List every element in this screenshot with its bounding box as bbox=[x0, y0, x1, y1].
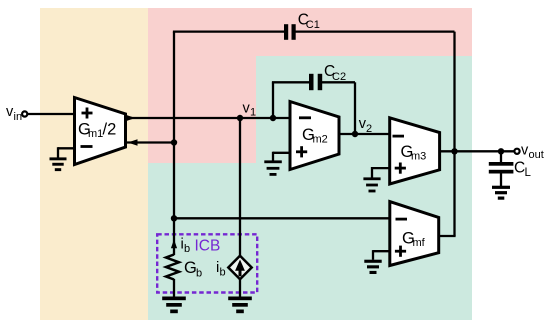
svg-text:b: b bbox=[196, 268, 202, 280]
svg-text:out: out bbox=[529, 149, 544, 161]
wire CC2 right leg down to v2 bbox=[354, 82, 356, 134]
current source ib bbox=[228, 256, 251, 280]
terminal vin bbox=[22, 111, 27, 116]
svg-text:m2: m2 bbox=[313, 134, 328, 146]
plus sign amp1 bbox=[82, 108, 93, 119]
capacitor CC1 plates bbox=[284, 24, 288, 40]
svg-text:/2: /2 bbox=[103, 121, 117, 139]
plus sign amp2 bbox=[296, 146, 307, 157]
node v1 bbox=[237, 115, 243, 121]
svg-text:ICB: ICB bbox=[195, 238, 221, 255]
wire vin to Gm1/2 bbox=[27, 113, 75, 115]
minus sign Gmf bbox=[396, 218, 408, 221]
node amp1 feedback junction bbox=[171, 139, 177, 145]
wire CC2 horizontal left segment bbox=[272, 81, 309, 83]
ground Gmf bbox=[373, 250, 390, 252]
svg-text:b: b bbox=[184, 243, 190, 255]
op-amp U4 Gmf bbox=[390, 202, 439, 266]
background pink region bbox=[148, 8, 472, 163]
resistor Gb bbox=[166, 255, 179, 280]
arrow ib on wire A bbox=[171, 239, 177, 248]
wire right vertical x=454.5 (CC1 right leg down to Gmf output) bbox=[453, 32, 455, 236]
ground current source bbox=[228, 297, 252, 314]
plus sign Gmf bbox=[395, 246, 406, 257]
wire Gm1 feedback input bbox=[126, 141, 175, 143]
minus sign amp3 bbox=[393, 135, 405, 138]
node ICB junction on wire A bbox=[171, 215, 177, 221]
capacitor CC2 plates bbox=[309, 74, 314, 90]
terminal vout bbox=[514, 149, 519, 154]
wire CC1 top horizontal right segment bbox=[296, 30, 455, 32]
dashed box ICB bbox=[157, 234, 257, 292]
background teal region lower bbox=[148, 163, 472, 320]
background teal region upper bbox=[256, 56, 472, 320]
wire v2 rail Gm2 output to Gm3 input bbox=[339, 133, 390, 135]
node CC2 branch junction bbox=[270, 115, 276, 121]
wire CC2 horizontal right segment bbox=[322, 81, 355, 83]
arrow Gm1 output bbox=[126, 115, 136, 121]
svg-text:b: b bbox=[220, 267, 226, 279]
svg-text:m1: m1 bbox=[88, 128, 103, 140]
arrow Gm1 feedback (pointing left) bbox=[128, 139, 138, 145]
svg-text:C2: C2 bbox=[332, 71, 346, 83]
wire below current source bbox=[239, 279, 241, 297]
minus sign amp2 bbox=[299, 116, 311, 119]
wire CC2 left leg bbox=[272, 82, 274, 118]
wire Gm1 output to v1 rail bbox=[126, 117, 291, 119]
svg-text:G: G bbox=[184, 259, 197, 277]
wire A vertical (CC1 left leg down to ICB resistor) bbox=[173, 32, 175, 255]
node output junction with feedback bbox=[451, 148, 457, 154]
svg-text:m3: m3 bbox=[411, 151, 426, 163]
wire Gm3 output to vout bbox=[440, 150, 515, 152]
svg-text:1: 1 bbox=[250, 107, 256, 119]
op-amp U3 Gm3 bbox=[390, 118, 440, 184]
ground Gb bbox=[162, 297, 186, 314]
ground amp1 bbox=[58, 147, 75, 149]
ground amp3 bbox=[372, 167, 390, 169]
minus sign amp1 bbox=[81, 145, 93, 148]
wire Gmf output bbox=[439, 235, 456, 237]
svg-text:mf: mf bbox=[413, 237, 426, 249]
node CL junction bbox=[498, 148, 504, 154]
node v2 bbox=[352, 131, 358, 137]
op-amp U1 Gm1/2 bbox=[75, 98, 126, 165]
wire CC1 top horizontal left segment bbox=[173, 30, 284, 32]
ground amp2 bbox=[273, 152, 290, 154]
wire Gmf input rail bbox=[174, 217, 390, 219]
plus sign amp3 bbox=[395, 163, 406, 174]
background yellow region (input stage) bbox=[40, 8, 148, 320]
capacitor CL bbox=[500, 151, 502, 162]
svg-text:C1: C1 bbox=[306, 19, 320, 31]
op-amp U2 Gm2 bbox=[290, 102, 339, 170]
ground CL bbox=[492, 186, 510, 200]
wire B vertical from v1 down to current source bbox=[239, 118, 241, 256]
svg-text:2: 2 bbox=[366, 123, 372, 135]
svg-text:in: in bbox=[14, 111, 23, 123]
svg-text:L: L bbox=[525, 167, 532, 179]
